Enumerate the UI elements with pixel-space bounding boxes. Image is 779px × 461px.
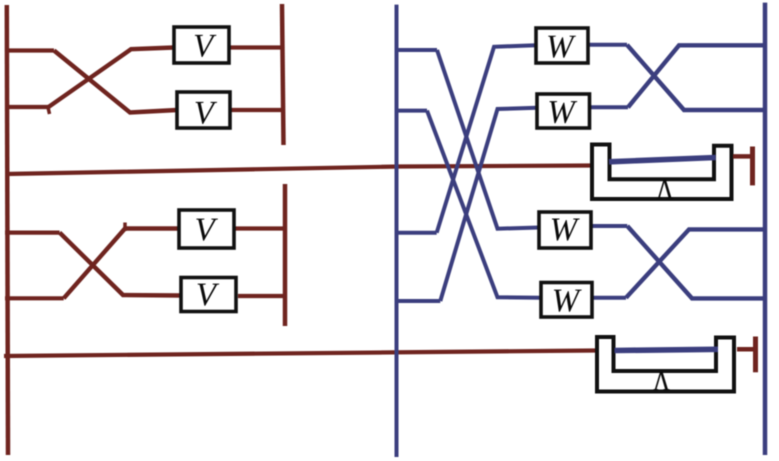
detector Lambda 1 outline (592, 145, 732, 200)
wire: red stub row4 (5, 296, 64, 300)
wire: blue stub row1 (397, 48, 438, 52)
terminator tick detector 2 (753, 337, 758, 373)
permutation wire row1 to W3 (437, 50, 539, 229)
long red wire to detector 2 (4, 351, 595, 357)
detector Lambda 2 blue wire (615, 349, 719, 350)
wire: blue stub row4 (397, 299, 441, 303)
wire: red stub row2 (5, 105, 49, 109)
wire: red stub row1 (5, 48, 54, 52)
gate box V3 (179, 210, 234, 248)
gate box V4 (181, 278, 236, 312)
wire tick at stub row2 end (48, 105, 50, 114)
detector Lambda 2 outline (597, 337, 734, 392)
crossing X2 (rows 3-4): row4 to row3 (64, 229, 179, 299)
wire: blue stub row2 (397, 109, 428, 113)
wire tick at X2 upper-right bend (123, 223, 127, 232)
wire: red stub row3 (5, 231, 60, 235)
detector Lambda 1 label (657, 180, 673, 198)
gate box V2 (177, 92, 230, 128)
gate box W2 (537, 94, 590, 128)
wire: W2 out (590, 105, 629, 109)
crossing X1 (rows 1-2): row2 to row1 (49, 48, 175, 108)
detector Lambda 1 blue wire (609, 158, 716, 162)
wire: V2 output to bus (230, 108, 282, 112)
wire: V4 output to bus (238, 294, 285, 298)
gate box W1 (536, 28, 588, 63)
red bus after lower V stage (283, 184, 288, 326)
blue output bus (right vertical) (763, 3, 768, 455)
gate box W3 (539, 212, 591, 248)
red input bus (left vertical) (7, 5, 8, 455)
wire: V3 output to bus (234, 226, 285, 230)
blue bus (left vertical of W stage) (395, 5, 399, 457)
wire: V1 output to bus (229, 45, 282, 49)
wire: W3 out (591, 224, 627, 228)
wire: red stub right of detector 2 (737, 347, 754, 352)
permutation wire row2 to W4 (427, 111, 541, 298)
wire: red stub right of detector 1 (733, 154, 751, 159)
terminator tick detector 1 (750, 147, 755, 186)
permutation wire row3 to W1 (437, 45, 536, 233)
gate box W4 (541, 283, 592, 318)
red bus after upper V stage (282, 4, 284, 145)
crossing X1 (rows 1-2): row1 to row2 (54, 51, 177, 113)
detector Lambda 2 label (653, 372, 669, 390)
crossing X3 (rows 1-2): up leg (628, 45, 764, 107)
crossing X2 (rows 3-4): row3 to row4 (60, 233, 181, 296)
wire: W1 out (588, 43, 627, 47)
long red wire to detector 1 (6, 166, 591, 175)
crossing X4 (rows 3-4): up leg (626, 229, 764, 297)
crossing X4 (rows 3-4): down leg (627, 226, 763, 298)
gate box V1 (174, 27, 229, 63)
wire: blue stub row3 (397, 231, 437, 235)
wire: W4 out (594, 296, 627, 300)
permutation wire row4 to W2 (440, 108, 537, 301)
crossing X3 (rows 1-2): down leg (627, 45, 764, 110)
